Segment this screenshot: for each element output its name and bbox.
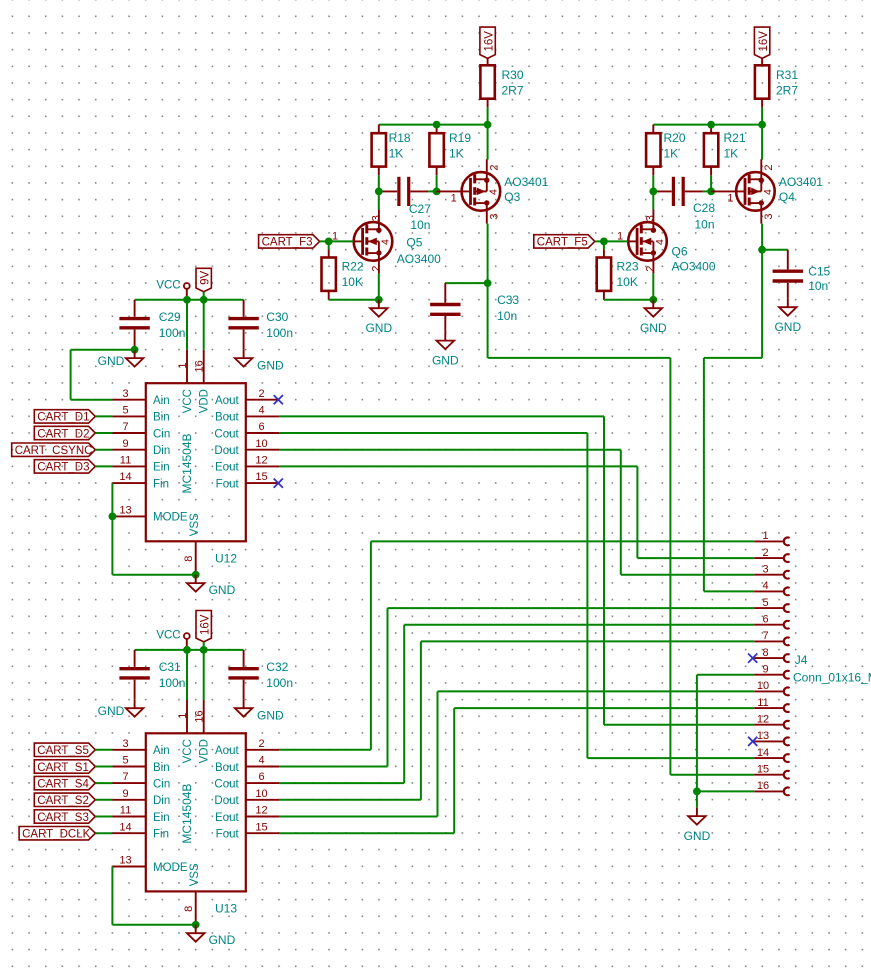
svg-text:12: 12 bbox=[757, 714, 769, 726]
svg-text:8: 8 bbox=[183, 906, 195, 912]
svg-text:7: 7 bbox=[122, 771, 128, 783]
svg-text:Fin: Fin bbox=[153, 829, 169, 841]
IC U12 pin 8 (VSS) bbox=[183, 513, 201, 575]
IC U12 pin 3 (Ain) bbox=[112, 388, 169, 407]
wire Q3 net right bbox=[488, 357, 671, 359]
wire 16V stub bbox=[203, 642, 205, 650]
svg-text:GND: GND bbox=[257, 709, 284, 723]
svg-text:13: 13 bbox=[757, 730, 769, 742]
wire U13 output bbox=[279, 782, 404, 784]
svg-text:Fin: Fin bbox=[153, 478, 169, 490]
svg-text:VSS: VSS bbox=[189, 863, 201, 886]
wire label to pin bbox=[95, 816, 112, 818]
wire R30 to rail bbox=[487, 107, 489, 124]
wire R18 to node bbox=[378, 175, 380, 191]
svg-text:Fout: Fout bbox=[216, 478, 240, 490]
IC U13 pin 2 (Aout) bbox=[215, 738, 279, 757]
capacitor C33 bbox=[430, 283, 460, 332]
wire to J4 pin 10 bbox=[438, 690, 755, 692]
svg-text:3: 3 bbox=[762, 564, 768, 576]
ground (C33) bbox=[432, 332, 459, 367]
svg-text:15: 15 bbox=[255, 821, 267, 833]
svg-text:CART_S5: CART_S5 bbox=[37, 745, 89, 757]
label C29 value texts bbox=[159, 310, 186, 340]
resistor R20 bbox=[646, 125, 660, 176]
label C32 value texts bbox=[266, 660, 293, 690]
net label CART_D3 bbox=[34, 460, 95, 474]
svg-text:16: 16 bbox=[194, 710, 206, 722]
svg-text:100n: 100n bbox=[266, 326, 293, 340]
label Q4 texts bbox=[779, 175, 823, 204]
transistor Q5 (AO3400) bbox=[332, 209, 392, 273]
wire U13 Cout up bbox=[403, 625, 405, 783]
capacitor C27 bbox=[379, 177, 428, 206]
svg-text:C32: C32 bbox=[266, 660, 288, 674]
wire Q5 source down bbox=[378, 274, 380, 300]
connector J4 pin 12 bbox=[754, 714, 789, 729]
svg-text:Cout: Cout bbox=[214, 428, 239, 440]
svg-text:15: 15 bbox=[255, 471, 267, 483]
svg-text:GND: GND bbox=[365, 321, 392, 335]
IC U12 pin 10 (Dout) bbox=[214, 438, 279, 457]
wire label to pin bbox=[95, 782, 112, 784]
svg-text:C30: C30 bbox=[266, 310, 288, 324]
IC U13 pin 13 (MODE) bbox=[112, 855, 187, 874]
svg-text:10: 10 bbox=[255, 438, 267, 450]
svg-text:10: 10 bbox=[255, 788, 267, 800]
svg-text:1: 1 bbox=[177, 362, 189, 368]
svg-text:11: 11 bbox=[120, 805, 131, 817]
IC U13 pin 6 (Cout) bbox=[214, 771, 279, 790]
wire to J4 pin16 bbox=[697, 790, 754, 792]
wire pin14/pin13 tie down bbox=[111, 483, 113, 575]
wire to pin8 bbox=[112, 924, 195, 926]
transistor Q3 (AO3401) bbox=[436, 159, 500, 223]
svg-text:Fout: Fout bbox=[216, 829, 240, 841]
svg-text:3: 3 bbox=[645, 215, 657, 221]
svg-text:GND: GND bbox=[684, 829, 711, 843]
svg-text:4: 4 bbox=[380, 239, 392, 245]
svg-text:9: 9 bbox=[122, 788, 128, 800]
net label CART_S4 bbox=[34, 776, 95, 790]
svg-text:Bout: Bout bbox=[215, 412, 239, 424]
junction R19/C27/Q3 gate bbox=[433, 188, 441, 196]
wire to J4 pin 7 bbox=[421, 640, 754, 642]
ground (Q6 source) bbox=[640, 300, 667, 335]
IC U12 (MC14504B) body bbox=[146, 383, 246, 541]
svg-text:3: 3 bbox=[489, 213, 501, 219]
wire label to pin bbox=[95, 832, 112, 834]
svg-text:4: 4 bbox=[762, 580, 768, 592]
svg-text:VCC: VCC bbox=[156, 630, 180, 642]
junction R18/C27/Q5 drain bbox=[375, 188, 383, 196]
wire VDD to pin16 bbox=[203, 650, 205, 700]
svg-text:C27: C27 bbox=[409, 202, 431, 216]
svg-text:1: 1 bbox=[177, 713, 189, 719]
power flag 16V (R30) bbox=[480, 27, 495, 58]
svg-text:14: 14 bbox=[119, 821, 131, 833]
svg-text:AO3400: AO3400 bbox=[397, 252, 441, 266]
junction CART_F3/R22/Q5 gate bbox=[325, 238, 333, 246]
svg-text:10n: 10n bbox=[808, 279, 828, 293]
wire Dout to J4 pin3 bbox=[620, 450, 622, 575]
wire label to pin bbox=[95, 766, 112, 768]
svg-text:R18: R18 bbox=[389, 131, 411, 145]
net label CART_S3 bbox=[34, 810, 95, 824]
svg-text:11: 11 bbox=[757, 697, 768, 709]
IC U13 pin 8 (VSS) bbox=[183, 863, 201, 925]
wire U13 output bbox=[279, 766, 387, 768]
net label CART_DCLK bbox=[19, 827, 95, 841]
wire node to Q6 drain pin bbox=[652, 191, 654, 209]
junction VCC bbox=[183, 646, 191, 654]
capacitor C29 bbox=[119, 300, 149, 350]
wire Q3 drain down bbox=[487, 224, 489, 284]
wire VCC rail bbox=[135, 649, 244, 651]
svg-text:1K: 1K bbox=[724, 147, 739, 161]
svg-text:Q3: Q3 bbox=[504, 190, 520, 204]
power flag 16V (U13) bbox=[196, 611, 211, 642]
svg-text:Aout: Aout bbox=[215, 745, 239, 757]
wire label to pin bbox=[95, 449, 112, 451]
label C33 value texts bbox=[497, 293, 519, 323]
net label CART_S1 bbox=[34, 760, 95, 774]
no-connect U12 bbox=[274, 479, 283, 488]
power VCC bbox=[156, 280, 189, 300]
svg-text:Aout: Aout bbox=[215, 395, 239, 407]
junction pin8/GND bbox=[192, 571, 200, 579]
svg-text:Bin: Bin bbox=[153, 762, 170, 774]
wire U12 output bbox=[279, 415, 604, 417]
wire to J4 pin 12 bbox=[604, 724, 754, 726]
net label CART_S2 bbox=[34, 793, 95, 807]
svg-text:CART_DCLK: CART_DCLK bbox=[22, 829, 90, 841]
IC U12 pin 15 (Fout) bbox=[216, 471, 280, 490]
wire Q4 net down bbox=[761, 250, 763, 358]
svg-text:C15: C15 bbox=[808, 265, 830, 279]
svg-text:VCC: VCC bbox=[156, 280, 180, 292]
svg-text:CART_S3: CART_S3 bbox=[37, 812, 89, 824]
svg-text:5: 5 bbox=[122, 755, 128, 767]
svg-text:16: 16 bbox=[757, 780, 769, 792]
svg-text:GND: GND bbox=[98, 354, 125, 368]
svg-text:7: 7 bbox=[762, 630, 768, 642]
svg-text:C29: C29 bbox=[159, 310, 181, 324]
ground (C31) bbox=[98, 700, 144, 718]
svg-text:5: 5 bbox=[122, 405, 128, 417]
label R31 value texts bbox=[776, 68, 798, 98]
wire J4 pin9 to GND node bbox=[696, 675, 698, 792]
capacitor C31 bbox=[119, 650, 149, 700]
svg-text:MODE: MODE bbox=[153, 862, 188, 874]
IC U12 pin 7 (Cin) bbox=[112, 421, 170, 440]
svg-text:VSS: VSS bbox=[189, 513, 201, 536]
connector J4 pin 16 bbox=[754, 780, 789, 795]
svg-text:Din: Din bbox=[153, 445, 170, 457]
svg-text:1: 1 bbox=[727, 192, 733, 204]
wire node to Q5 drain pin bbox=[378, 191, 380, 209]
svg-text:12: 12 bbox=[255, 455, 267, 467]
wire C29 node left bbox=[71, 349, 135, 351]
svg-text:13: 13 bbox=[119, 855, 131, 867]
svg-text:R30: R30 bbox=[502, 68, 524, 82]
net label CART_D2 bbox=[34, 426, 95, 440]
wire U12 output bbox=[279, 449, 621, 451]
svg-text:CART_D2: CART_D2 bbox=[37, 428, 89, 440]
wire to J4 pin4 bbox=[704, 590, 754, 592]
svg-text:8: 8 bbox=[183, 556, 195, 562]
svg-text:CART_S4: CART_S4 bbox=[37, 778, 89, 790]
svg-text:1K: 1K bbox=[664, 147, 679, 161]
svg-text:7: 7 bbox=[122, 421, 128, 433]
svg-text:10K: 10K bbox=[617, 275, 638, 289]
svg-text:R22: R22 bbox=[342, 259, 364, 273]
wire VCC to pin1 bbox=[186, 650, 188, 700]
wire node to R22 bbox=[328, 241, 330, 249]
wire to J4 pin 6 bbox=[404, 624, 754, 626]
wire down to pin3 row bbox=[70, 350, 72, 400]
label R30 value texts bbox=[502, 68, 524, 98]
capacitor C30 bbox=[228, 300, 258, 350]
IC U12 pin 12 (Eout) bbox=[215, 455, 279, 474]
svg-text:Din: Din bbox=[153, 795, 170, 807]
svg-text:13: 13 bbox=[119, 505, 131, 517]
svg-text:2: 2 bbox=[371, 266, 383, 272]
svg-text:3: 3 bbox=[122, 738, 128, 750]
svg-text:CART_S2: CART_S2 bbox=[37, 795, 89, 807]
wire U12 output bbox=[279, 465, 637, 467]
wire label to pin bbox=[95, 415, 112, 417]
wire VCC to pin1 bbox=[186, 300, 188, 350]
wire 16V to R31 bbox=[761, 58, 763, 65]
junction R20/C28/Q6 drain bbox=[649, 188, 657, 196]
svg-text:2: 2 bbox=[258, 738, 264, 750]
svg-text:Ein: Ein bbox=[153, 812, 170, 824]
resistor R18 bbox=[372, 125, 386, 176]
no-connect J4 pin8 bbox=[748, 654, 757, 663]
svg-text:16V: 16V bbox=[199, 614, 211, 635]
IC U12 pin 13 (MODE) bbox=[112, 505, 187, 524]
svg-text:AO3401: AO3401 bbox=[504, 175, 548, 189]
wire Bout to J4 pin12 bbox=[603, 416, 605, 724]
svg-text:14: 14 bbox=[757, 747, 769, 759]
wire U13 Fout up bbox=[453, 708, 455, 833]
ground (U13 pin8) bbox=[187, 925, 236, 947]
svg-text:Ain: Ain bbox=[153, 395, 170, 407]
junction C29/GND/pin3 wire bbox=[131, 346, 139, 354]
svg-text:VDD: VDD bbox=[199, 739, 211, 763]
wire to J4 pin 14 bbox=[587, 757, 754, 759]
ground (Q5 source) bbox=[365, 300, 392, 335]
IC U13 pin 3 (Ain) bbox=[112, 738, 169, 757]
svg-text:2: 2 bbox=[489, 164, 501, 170]
ground (J4) bbox=[684, 808, 711, 843]
IC U12 internal pin names VCC/VDD bbox=[182, 389, 211, 413]
svg-text:4: 4 bbox=[258, 755, 264, 767]
transistor Q6 (AO3400) bbox=[617, 209, 667, 273]
wire Q3 net down bbox=[487, 283, 489, 358]
junction pin13/pin14 tie bbox=[109, 513, 117, 521]
capacitor C32 bbox=[228, 650, 258, 700]
connector J4 pin 6 bbox=[754, 614, 789, 629]
net label CART_S5 bbox=[34, 743, 95, 757]
wire Q6 source down bbox=[652, 274, 654, 300]
wire node to R23 bbox=[603, 241, 605, 249]
wire Q4 net down 2 bbox=[703, 358, 705, 592]
svg-text:MC14504B: MC14504B bbox=[180, 784, 194, 844]
resistor R21 bbox=[704, 125, 718, 176]
svg-text:Cout: Cout bbox=[214, 778, 239, 790]
svg-text:Eout: Eout bbox=[215, 462, 239, 474]
label R22 value texts bbox=[342, 259, 364, 289]
wire U12 output bbox=[279, 432, 587, 434]
svg-text:Ein: Ein bbox=[153, 462, 170, 474]
IC U12 pin 4 (Bout) bbox=[215, 405, 279, 424]
svg-text:Bin: Bin bbox=[153, 412, 170, 424]
net label CART_D1 bbox=[34, 410, 95, 424]
wire stub bbox=[703, 190, 712, 192]
label C30 value texts bbox=[266, 310, 293, 340]
IC U13 pin 4 (Bout) bbox=[215, 755, 279, 774]
label Q3 texts bbox=[504, 175, 548, 204]
wire top rail left bbox=[379, 124, 488, 126]
svg-text:15: 15 bbox=[757, 764, 769, 776]
connector J4 pin 8 bbox=[754, 647, 789, 662]
junction VDD supply bbox=[200, 646, 208, 654]
svg-text:4: 4 bbox=[654, 239, 666, 245]
wire U13 output bbox=[279, 816, 437, 818]
wire top rail right bbox=[653, 124, 762, 126]
label C15 value texts bbox=[808, 265, 830, 293]
ground (C30) bbox=[235, 350, 284, 373]
svg-text:U12: U12 bbox=[215, 551, 237, 565]
connector J4 pin 5 bbox=[754, 597, 789, 612]
svg-text:10n: 10n bbox=[410, 218, 430, 232]
wire label to node bbox=[320, 240, 329, 242]
IC U13 pin 5 (Bin) bbox=[112, 755, 169, 774]
label Q5 texts bbox=[397, 235, 441, 266]
junction rail/R31/Q4 bbox=[758, 121, 766, 129]
svg-text:MODE: MODE bbox=[153, 512, 188, 524]
wire R19 to node bbox=[436, 175, 438, 191]
svg-text:C33: C33 bbox=[497, 293, 519, 307]
svg-text:CART_F5: CART_F5 bbox=[537, 237, 588, 249]
svg-text:GND: GND bbox=[98, 704, 125, 718]
svg-text:4: 4 bbox=[762, 189, 774, 195]
net label CART_CSYNC bbox=[12, 443, 96, 457]
svg-text:Q6: Q6 bbox=[672, 244, 688, 258]
junction Q3 drain/C33 bbox=[484, 279, 492, 287]
svg-text:C31: C31 bbox=[159, 660, 181, 674]
label R19 value texts bbox=[449, 131, 471, 161]
junction VDD supply bbox=[200, 296, 208, 304]
ground (U12 pin8) bbox=[187, 575, 236, 597]
label R20 value texts bbox=[664, 131, 686, 161]
label R23 value texts bbox=[617, 259, 639, 289]
svg-text:100n: 100n bbox=[159, 676, 186, 690]
IC U12 pin 11 (Ein) bbox=[112, 455, 169, 474]
svg-text:Cin: Cin bbox=[153, 778, 170, 790]
svg-text:VCC: VCC bbox=[182, 739, 194, 763]
svg-text:3: 3 bbox=[122, 388, 128, 400]
wire R22 to Q5 source bbox=[329, 299, 379, 301]
svg-text:10K: 10K bbox=[342, 275, 363, 289]
svg-text:CART_F3: CART_F3 bbox=[262, 237, 313, 249]
wire U13 Aout up bbox=[370, 541, 372, 749]
junction CART_F5/R23/Q6 gate bbox=[600, 238, 608, 246]
svg-text:R20: R20 bbox=[664, 131, 686, 145]
svg-text:VCC: VCC bbox=[182, 389, 194, 413]
wire label to pin bbox=[95, 465, 112, 467]
label Q6 texts bbox=[672, 244, 716, 273]
svg-text:4: 4 bbox=[258, 405, 264, 417]
svg-text:CART_D1: CART_D1 bbox=[37, 412, 89, 424]
wire to J4 pin 1 bbox=[371, 540, 754, 542]
IC U13 pin 9 (Din) bbox=[112, 788, 170, 807]
junction rail/R30/Q3 bbox=[484, 121, 492, 129]
svg-text:Ain: Ain bbox=[153, 745, 170, 757]
wire R31 to rail bbox=[761, 107, 763, 124]
label C31 value texts bbox=[159, 660, 186, 690]
svg-text:2: 2 bbox=[762, 547, 768, 559]
wire Q4 net left bbox=[704, 357, 762, 359]
connector J4 pin 7 bbox=[754, 630, 789, 645]
wire VCC rail bbox=[135, 299, 244, 301]
IC U12 pin 6 (Cout) bbox=[214, 421, 279, 440]
ground (C29) bbox=[98, 350, 144, 368]
no-connect U12 bbox=[274, 395, 283, 404]
IC U13 top pins 1/16 bbox=[177, 700, 206, 733]
connector J4 pin 15 bbox=[754, 764, 789, 779]
IC U13 pin 14 (Fin) bbox=[112, 821, 169, 840]
svg-text:Cin: Cin bbox=[153, 428, 170, 440]
svg-text:MC14504B: MC14504B bbox=[180, 433, 194, 493]
wire 16V to R30 bbox=[487, 58, 489, 65]
wire GND stub bbox=[696, 791, 698, 807]
wire stub bbox=[428, 190, 437, 192]
connector J4 pin 4 bbox=[754, 580, 789, 595]
wire U13 output bbox=[279, 799, 421, 801]
wire 9V stub bbox=[203, 292, 205, 300]
svg-text:C28: C28 bbox=[693, 201, 715, 215]
svg-text:GND: GND bbox=[209, 933, 236, 947]
svg-text:CART_CSYNC: CART_CSYNC bbox=[15, 445, 93, 457]
junction J4 GND bbox=[693, 788, 701, 796]
junction rail/R19 bbox=[433, 121, 441, 129]
svg-text:3: 3 bbox=[371, 215, 383, 221]
svg-text:Q5: Q5 bbox=[406, 235, 422, 249]
wire to C15 bbox=[762, 249, 788, 251]
svg-text:GND: GND bbox=[640, 321, 667, 335]
svg-text:14: 14 bbox=[119, 471, 131, 483]
svg-text:6: 6 bbox=[258, 771, 264, 783]
svg-text:100n: 100n bbox=[159, 326, 186, 340]
resistor R19 bbox=[429, 125, 443, 176]
svg-text:9: 9 bbox=[762, 664, 768, 676]
svg-text:10n: 10n bbox=[497, 309, 517, 323]
wire Eout to J4 pin2 bbox=[636, 466, 638, 558]
label C27 value texts bbox=[409, 202, 431, 232]
svg-text:AO3400: AO3400 bbox=[672, 260, 716, 274]
svg-text:3: 3 bbox=[763, 213, 775, 219]
IC U12 top pins 1/16 bbox=[177, 350, 206, 383]
svg-text:GND: GND bbox=[209, 583, 236, 597]
wire to U12 pin3 bbox=[71, 399, 113, 401]
svg-text:GND: GND bbox=[432, 353, 459, 367]
power flag 16V (R31) bbox=[754, 27, 769, 58]
svg-text:10: 10 bbox=[757, 680, 769, 692]
svg-text:R21: R21 bbox=[724, 131, 746, 145]
